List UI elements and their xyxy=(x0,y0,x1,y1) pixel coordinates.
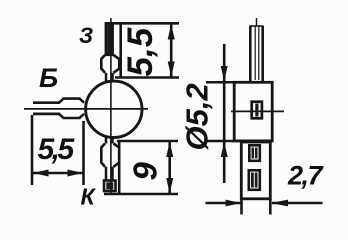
svg-text:Ø5,2: Ø5,2 xyxy=(180,83,215,150)
svg-text:5,5: 5,5 xyxy=(121,27,160,76)
svg-text:5,5: 5,5 xyxy=(38,133,76,166)
svg-text:Б: Б xyxy=(39,63,58,93)
svg-text:9: 9 xyxy=(127,162,164,181)
svg-text:2,7: 2,7 xyxy=(287,161,325,191)
svg-text:З: З xyxy=(79,23,93,48)
svg-text:К: К xyxy=(81,184,97,210)
